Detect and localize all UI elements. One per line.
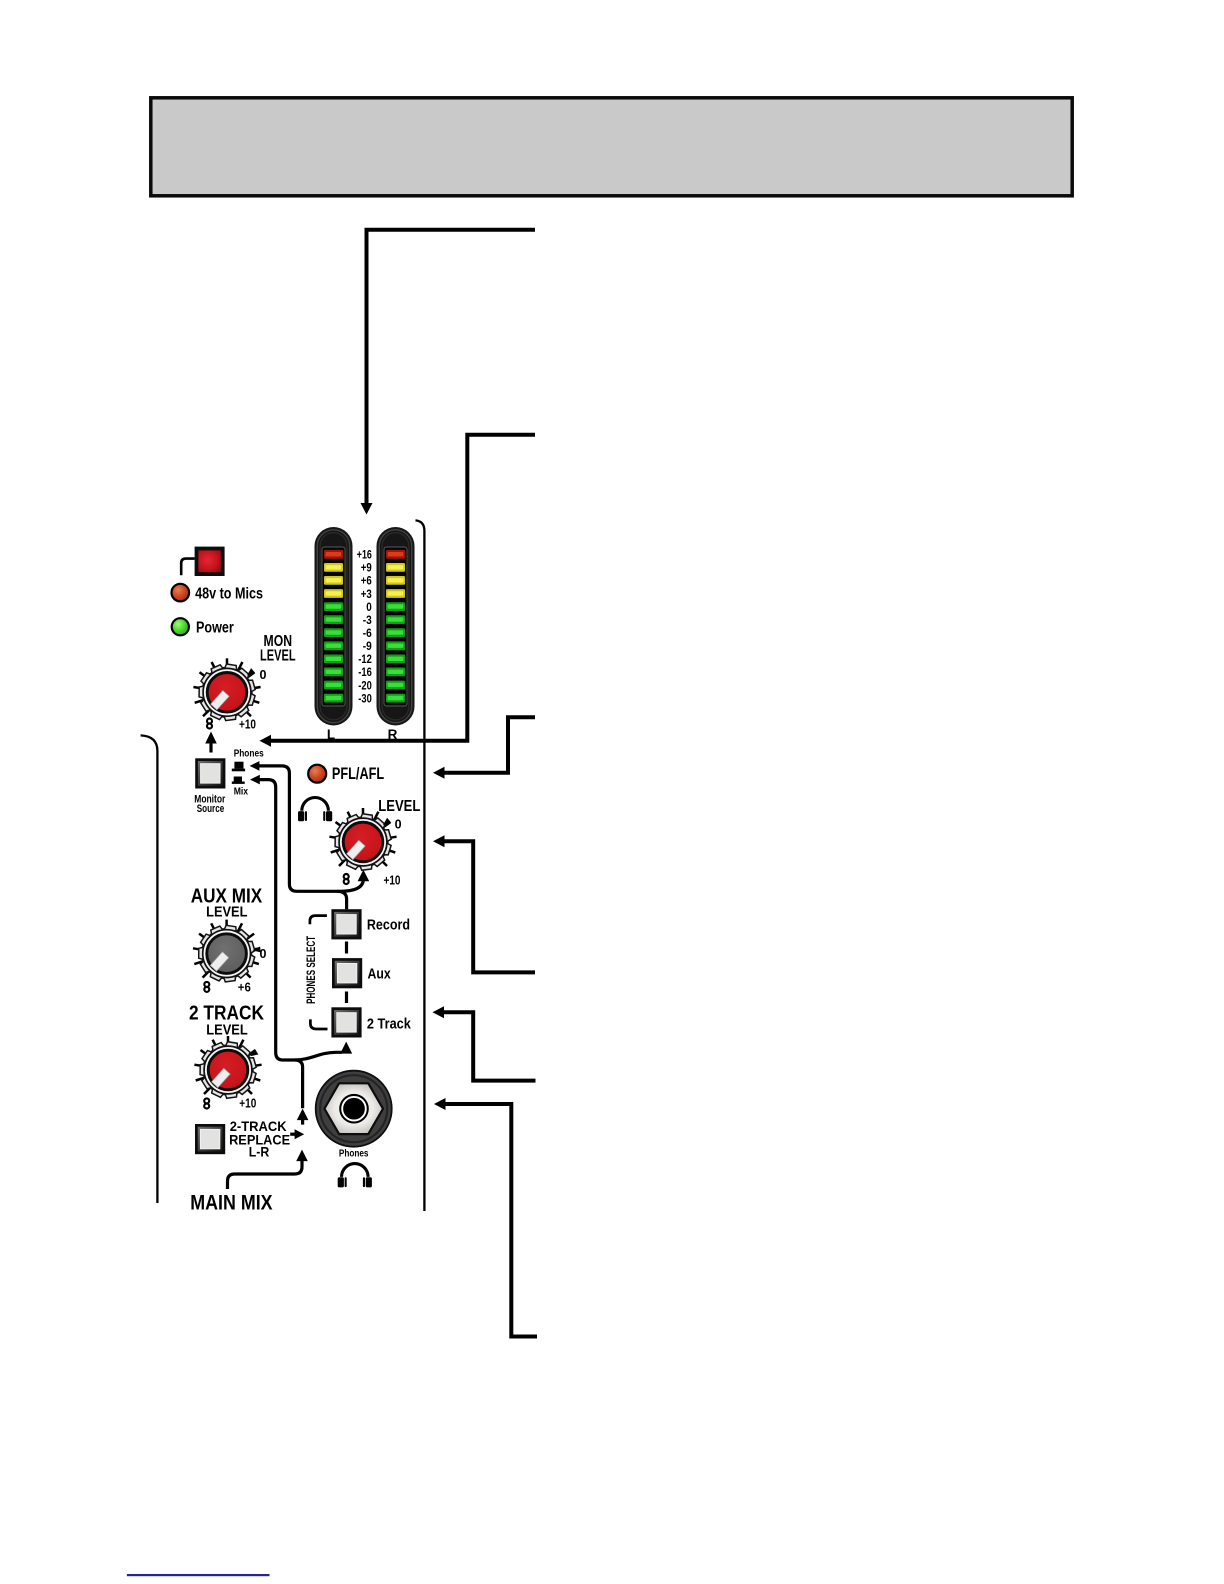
svg-text:-6: -6 [363, 626, 372, 640]
svg-text:Mix: Mix [234, 787, 249, 798]
svg-text:-30: -30 [358, 691, 372, 705]
svg-text:0: 0 [366, 600, 372, 614]
svg-text:LEVEL: LEVEL [378, 798, 420, 815]
svg-text:+9: +9 [361, 561, 372, 575]
svg-text:2 Track: 2 Track [367, 1017, 411, 1033]
svg-text:LEVEL: LEVEL [206, 903, 247, 920]
svg-text:MAIN MIX: MAIN MIX [190, 1191, 272, 1214]
svg-text:+3: +3 [361, 587, 372, 601]
svg-text:48v to Mics: 48v to Mics [195, 586, 263, 603]
svg-text:-9: -9 [363, 639, 372, 653]
svg-text:Phones: Phones [234, 748, 264, 759]
svg-text:L: L [327, 727, 335, 742]
svg-text:0: 0 [260, 947, 267, 961]
svg-text:+16: +16 [357, 548, 372, 562]
svg-text:+10: +10 [239, 718, 256, 732]
svg-text:LEVEL: LEVEL [260, 647, 296, 664]
svg-text:0: 0 [260, 668, 267, 682]
svg-text:0: 0 [395, 817, 402, 831]
svg-text:Aux: Aux [368, 967, 391, 983]
svg-text:Record: Record [367, 917, 410, 933]
svg-text:+6: +6 [238, 980, 251, 994]
svg-text:PFL/AFL: PFL/AFL [332, 765, 384, 783]
svg-text:-12: -12 [358, 652, 372, 666]
svg-text:L-R: L-R [249, 1144, 270, 1159]
svg-text:-20: -20 [358, 678, 372, 692]
svg-text:R: R [388, 727, 398, 742]
svg-text:-16: -16 [358, 665, 372, 679]
svg-text:Power: Power [196, 620, 234, 637]
svg-text:+10: +10 [239, 1097, 256, 1111]
svg-text:Phones: Phones [339, 1147, 369, 1159]
svg-text:+6: +6 [361, 574, 372, 588]
svg-text:-3: -3 [363, 613, 372, 627]
svg-text:PHONES SELECT: PHONES SELECT [304, 936, 318, 1004]
svg-text:+10: +10 [384, 874, 401, 888]
svg-text:Source: Source [197, 803, 224, 815]
